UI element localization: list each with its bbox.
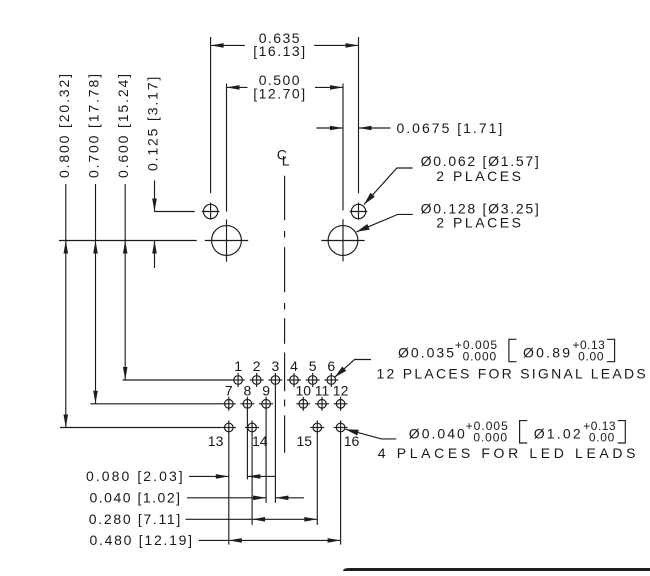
dimension 0.800 [20.32] vertical [56,74,72,428]
svg-text:6: 6 [327,358,335,374]
pad pin 15 [310,421,324,435]
svg-text:0.700 [17.78]: 0.700 [17.78] [86,74,102,178]
pad pin 12 [334,397,348,411]
dimension 0.480 [12.19] [90,532,341,548]
dimension 0.700 [17.78] vertical [86,74,102,404]
wire extension line down from pin 3 [274,387,276,503]
wire extension line down from pin 13 [228,434,230,544]
pad pin 14 [245,421,259,435]
wire row1 extension line [123,379,232,381]
wire vertical extension line from small hole right up to 0.635 dim [358,37,360,193]
svg-text:8: 8 [244,383,252,399]
pin numbers row 3 [208,433,360,449]
wire vertical extension line from big hole left up to 0.500 dim [226,84,228,212]
pad pin 5 [306,373,320,387]
svg-text:2: 2 [253,358,261,374]
wire extension line down from pin 16 [340,434,342,544]
svg-text:0.600 [15.24]: 0.600 [15.24] [115,74,131,178]
svg-text:0.480 [12.19]: 0.480 [12.19] [90,532,193,548]
svg-text:Ø0.035: Ø0.035 [398,344,454,360]
svg-text:15: 15 [297,433,313,449]
border: bottom right thick bar [343,568,650,571]
wire horizontal extension line through big hole centers y=240.5 [59,240,197,242]
dimension 0.500 [12.70] [227,72,344,101]
dimension 0.040 [1.02] [90,490,304,506]
pad pin 2 [250,373,264,387]
pad pin 10 [296,397,310,411]
svg-text:14: 14 [252,433,268,449]
pad pin 16 [334,421,348,435]
svg-text:11: 11 [315,383,330,399]
svg-text:L: L [282,153,290,169]
pad pin 11 [315,397,329,411]
dimension 0.600 [15.24] vertical [115,74,131,380]
dimension 0.635 [16.13] [211,30,359,59]
wire extension line down from pin 9 [265,411,267,503]
svg-text:3: 3 [272,358,280,374]
node centerline symbol CL [277,146,290,168]
svg-text:13: 13 [208,433,224,449]
wire extension line down from pin 8 [246,411,248,480]
svg-text:Ø1.02: Ø1.02 [534,426,581,442]
wire vertical extension line from small hole left up to 0.635 dim [210,37,212,193]
svg-text:0.00: 0.00 [578,349,604,363]
annotation LED leads: Ø0.040 +0.005/0.000 [Ø1.02 +0.13/0.00] 4 PLACES FOR LED LEADS [345,419,635,461]
pad pin 9 [259,397,273,411]
annotation leader to big hole: Ø0.128 2 PLACES [357,200,539,231]
dimension 0.280 [7.11] [89,511,317,527]
svg-text:Ø0.89: Ø0.89 [523,344,570,360]
pin numbers row 1 [234,358,335,374]
annotation leader to small hole: Ø0.062 2 PLACES [364,153,539,204]
wire extension line down from pin 14 [251,434,253,525]
svg-text:[16.13]: [16.13] [253,43,305,59]
pad pin 3 [268,373,282,387]
pad pin 13 [222,421,236,435]
node small mounting hole right (Ø0.062) [350,203,368,220]
svg-text:1: 1 [234,358,242,374]
annotation signal leads: Ø0.035 +0.005/0.000 [Ø0.89 +0.13/0.00] 12 PLACES FOR SIGNAL LEADS [335,338,646,382]
svg-text:7: 7 [225,383,233,399]
dimension 0.080 [2.03] [86,468,276,484]
svg-text:9: 9 [262,383,270,399]
dimension 0.125 [3.17] vertical [145,77,161,268]
wire row3 extension line [60,427,221,429]
pin numbers row 2 [225,383,349,399]
node big mounting hole left (Ø0.128) [205,220,248,262]
pad pin 4 [287,373,301,387]
pad pin 6 [324,373,338,387]
wire horizontal extension line to small hole y=211.5 [155,211,195,213]
pad pin 8 [240,397,254,411]
pad pin 1 [231,373,245,387]
wire vertical extension line from big hole right up to 0.500 dim [342,84,344,211]
node small mounting hole left (Ø0.062) [202,203,220,220]
svg-text:0.000: 0.000 [463,349,497,363]
wire extension line down from pin 15 [316,434,318,525]
dimension 0.0675 [1.71] [317,120,503,136]
svg-text:0.00: 0.00 [589,431,615,445]
svg-text:2 PLACES: 2 PLACES [436,215,521,231]
svg-text:12 PLACES FOR SIGNAL LEADS: 12 PLACES FOR SIGNAL LEADS [377,366,646,382]
svg-text:0.800 [20.32]: 0.800 [20.32] [56,74,72,178]
svg-text:4: 4 [290,358,298,374]
svg-text:5: 5 [309,358,317,374]
svg-text:12: 12 [333,383,349,399]
svg-text:Ø0.062 [Ø1.57]: Ø0.062 [Ø1.57] [421,153,539,169]
svg-text:Ø0.040: Ø0.040 [409,426,465,442]
wire vertical centerline dash-dot [284,176,286,453]
node big mounting hole right (Ø0.128) [321,219,364,261]
svg-text:0.000: 0.000 [473,431,507,445]
svg-text:10: 10 [296,383,312,399]
svg-text:[12.70]: [12.70] [253,85,305,101]
svg-text:2 PLACES: 2 PLACES [436,168,521,184]
pad pin 7 [222,397,236,411]
wire row2 extension line [90,403,222,405]
